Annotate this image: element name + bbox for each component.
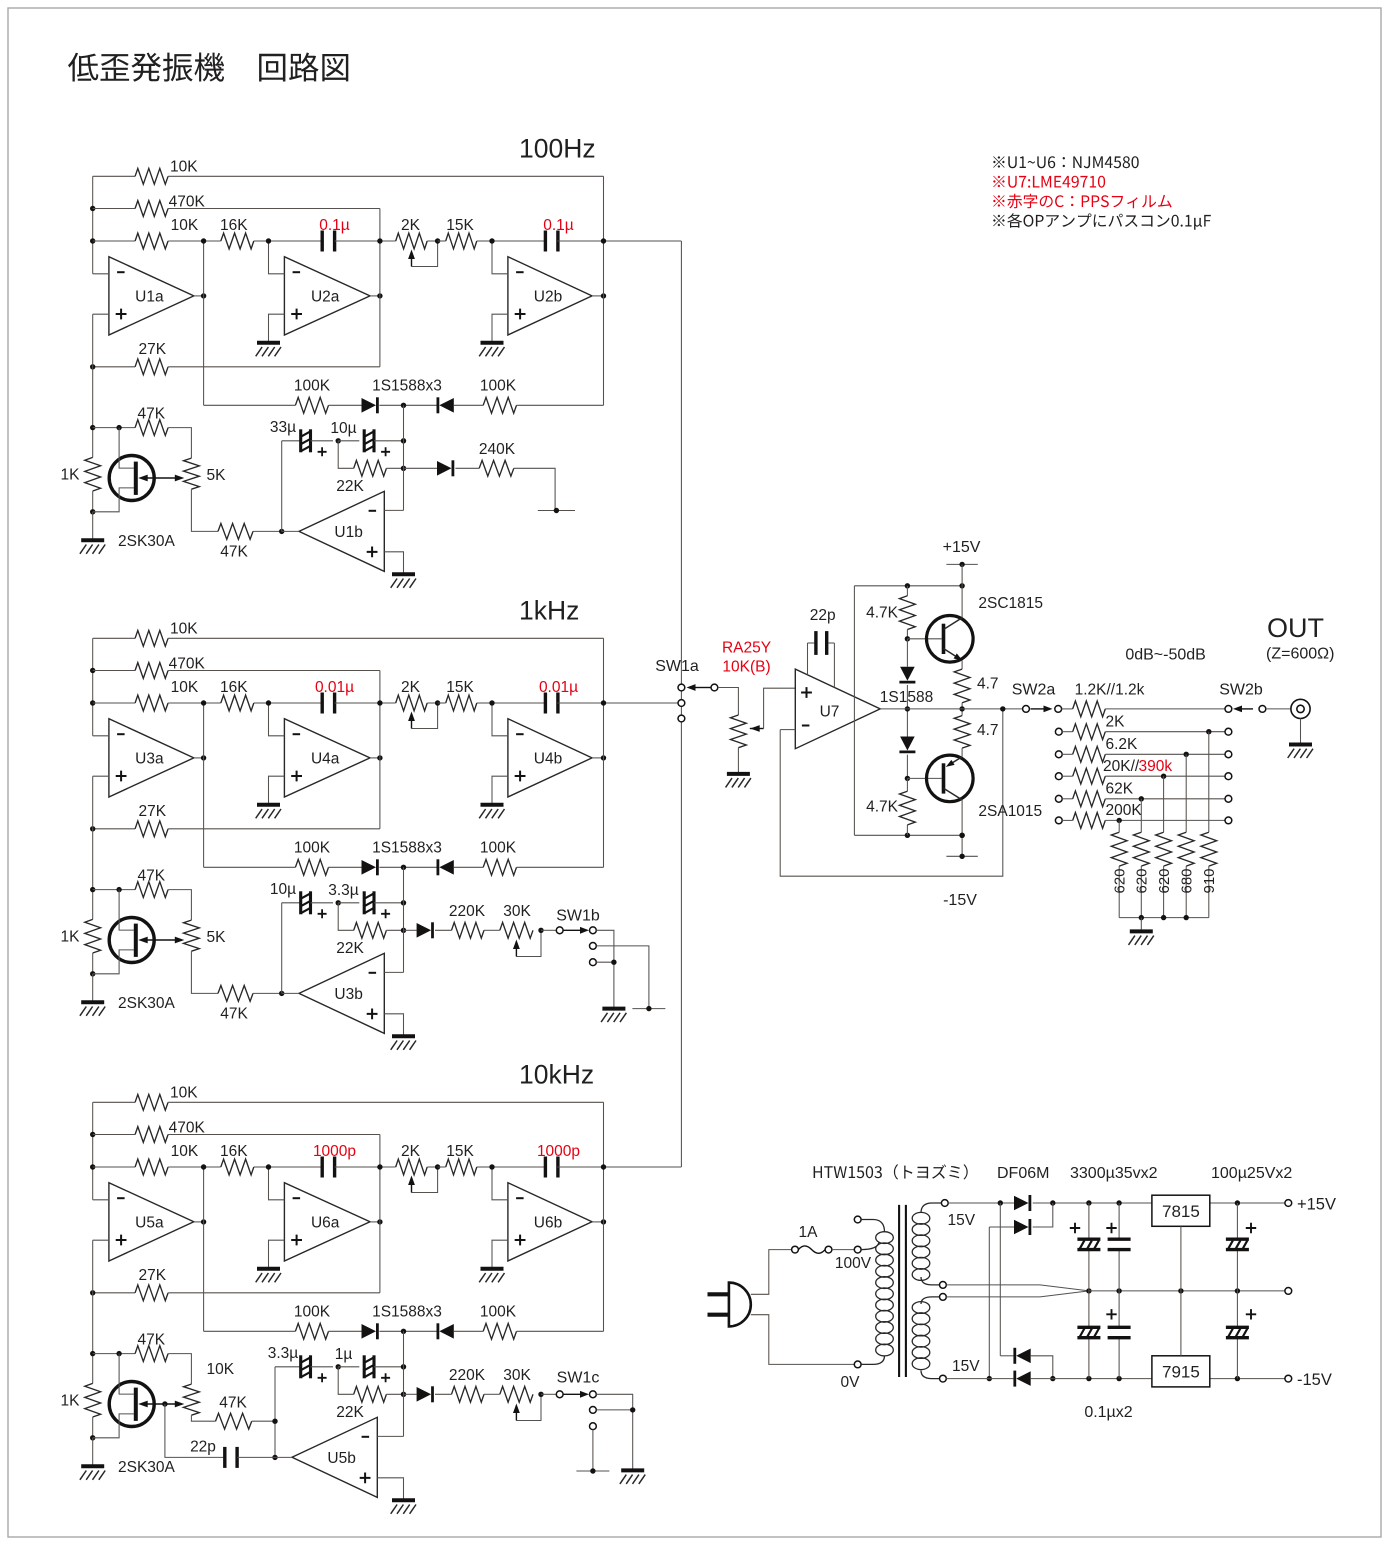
resistor 100K (limiter right, 100Hz) xyxy=(454,378,604,414)
capacitor 0.01µ (integrator 2, 1kHz) xyxy=(492,693,604,714)
svg-text:10µ: 10µ xyxy=(330,420,356,437)
wire JFET gate to pot wiper (100Hz) xyxy=(138,475,184,482)
polarity + 100µ upper xyxy=(1246,1223,1256,1233)
svg-text:47K: 47K xyxy=(220,544,248,561)
svg-text:100µ25Vx2: 100µ25Vx2 xyxy=(1211,1165,1292,1182)
capacitor 0.1µ (film pair) xyxy=(1108,1203,1131,1379)
svg-text:220K: 220K xyxy=(449,1367,486,1384)
capacitor 0.01µ (integrator 1, 1kHz) xyxy=(269,693,380,714)
value label 3.3µ xyxy=(328,882,359,899)
svg-text:U2b: U2b xyxy=(534,288,562,305)
capacitor 33µ (electrolytic, 100Hz) xyxy=(301,429,333,456)
svg-text:10K(B): 10K(B) xyxy=(722,659,770,676)
resistor 2K (-10dB series) xyxy=(1062,724,1225,740)
svg-text:47K: 47K xyxy=(220,1006,248,1023)
diode 1S1588 (rectifier, 100Hz) xyxy=(404,460,453,476)
svg-text:47K: 47K xyxy=(138,406,166,423)
wire U2b inverting input xyxy=(489,238,508,273)
polarity + 3300µ upper xyxy=(1070,1223,1080,1233)
wire bottom rail left xyxy=(946,1378,1013,1380)
power label -15V xyxy=(943,892,977,909)
op-amp U6b xyxy=(508,1183,592,1261)
svg-text:2K: 2K xyxy=(1106,714,1126,731)
svg-text:620: 620 xyxy=(1134,868,1151,893)
svg-text:2K: 2K xyxy=(401,1143,421,1160)
terminal +15V output xyxy=(1285,1200,1292,1207)
designator label 1S1588x3 (100Hz) xyxy=(372,378,442,395)
value label 620 xyxy=(1134,868,1151,893)
resistor 620 (shunt 1) xyxy=(1111,818,1127,918)
diode 1S1588 (bias lower) xyxy=(899,709,915,779)
svg-text:0dB~-50dB: 0dB~-50dB xyxy=(1125,647,1206,664)
note bypass caps xyxy=(993,213,1211,230)
svg-text:SW2a: SW2a xyxy=(1012,682,1056,699)
resistor 20K//390k (-30dB series) xyxy=(1062,768,1225,784)
value label 1A xyxy=(799,1224,819,1241)
resistor 1K (source, 1kHz) xyxy=(61,919,101,976)
svg-text:910: 910 xyxy=(1201,868,1218,893)
svg-text:620: 620 xyxy=(1156,868,1173,893)
switch SW1b label xyxy=(556,908,600,925)
node Q2 base xyxy=(905,706,942,781)
wire U3a inverting input xyxy=(93,735,109,737)
resistor 16K (1kHz) xyxy=(204,679,269,711)
capacitor 3300µ35v (electrolytic pair) xyxy=(1077,1203,1100,1379)
wire U6a inverting input xyxy=(266,1164,285,1200)
svg-text:620: 620 xyxy=(1111,868,1128,893)
wire limiter center node (100Hz) xyxy=(379,403,436,408)
svg-text:SW1b: SW1b xyxy=(556,908,600,925)
wire Q2 collector to -15V xyxy=(959,800,964,856)
svg-text:1S1588: 1S1588 xyxy=(880,689,933,706)
svg-text:+15V: +15V xyxy=(1297,1196,1336,1214)
ground at SW1b xyxy=(601,1009,626,1023)
diode 1S1588 (limiter D1, 1kHz) xyxy=(362,859,378,875)
wire SW1c throw1 to ground rail xyxy=(596,1394,632,1470)
svg-text:RA25Y: RA25Y xyxy=(722,640,771,657)
svg-text:100K: 100K xyxy=(294,840,331,857)
wire U4a output xyxy=(370,755,383,760)
switch SW1b pole contact xyxy=(556,927,563,934)
wire output row to bus (100Hz) xyxy=(604,240,682,242)
resistor 1.2K//1.2k (0dB) xyxy=(1062,701,1225,717)
transistor 2SA1015 (Q2) xyxy=(927,755,974,802)
wire U3a output xyxy=(194,755,207,760)
wire U4b inverting input xyxy=(489,700,508,736)
svg-text:DF06M: DF06M xyxy=(997,1165,1049,1182)
wire JFET gate to pot wiper (1kHz) xyxy=(138,937,184,944)
switch SW1b throw 1 xyxy=(590,927,597,934)
svg-text:100K: 100K xyxy=(294,378,331,395)
svg-text:15V: 15V xyxy=(952,1358,980,1375)
resistor 1K (source, 100Hz) xyxy=(61,457,101,514)
terminal -15V output xyxy=(1285,1375,1292,1382)
value label 10µ xyxy=(330,420,356,437)
resistor 620 (shunt 2) xyxy=(1133,796,1149,918)
svg-text:+15V: +15V xyxy=(943,539,981,556)
node 1kHz heading xyxy=(519,596,579,626)
value label 2K xyxy=(1106,714,1126,731)
label attenuation range xyxy=(1125,647,1206,664)
svg-text:22K: 22K xyxy=(336,478,364,495)
wire source rail to ground (100Hz) xyxy=(92,512,94,541)
capacitor 3.3µ (electrolytic, 1kHz) xyxy=(338,891,406,918)
svg-text:22p: 22p xyxy=(810,607,836,624)
switch SW2a throw contact xyxy=(1055,706,1062,713)
wire SW1a pole to level pot xyxy=(718,688,739,716)
wire U4b output xyxy=(592,755,606,760)
switch SW2a label xyxy=(1012,682,1056,699)
resistor 1K (source, 10kHz) xyxy=(61,1383,101,1440)
switch SW2a throw contact (-40dB) xyxy=(1055,795,1062,802)
wire U6b non-inverting input xyxy=(492,1240,508,1269)
value label 62K xyxy=(1106,781,1134,798)
wire U7 inverting input feedback xyxy=(780,709,1003,876)
resistor 100K (limiter left, 1kHz) xyxy=(204,840,362,876)
svg-text:U5a: U5a xyxy=(135,1214,164,1231)
ground at JFET source (10kHz) xyxy=(80,1466,105,1480)
capacitor 1000p (integrator 2, 10kHz) xyxy=(492,1157,604,1178)
diode 1S1588 (rectifier, 10kHz) xyxy=(404,1386,433,1402)
terminal secondary 15V lower xyxy=(940,1375,947,1382)
svg-text:1S1588x3: 1S1588x3 xyxy=(372,840,442,857)
node U1b input junction xyxy=(279,529,284,534)
ground at U4a non-inverting input xyxy=(256,805,281,819)
switch SW1c throw 3 xyxy=(590,1423,597,1430)
designator label 1S1588x3 (10kHz) xyxy=(372,1304,442,1321)
op-amp U2b xyxy=(508,257,592,335)
note U7 LME49710 xyxy=(993,176,1105,188)
resistor 15K (10kHz) xyxy=(438,1143,492,1175)
wire U1b inverting input xyxy=(384,509,403,511)
wire U1a output xyxy=(194,293,207,298)
ground at U6a non-inverting input xyxy=(256,1269,281,1283)
switch SW2b throw contact 4 xyxy=(1225,773,1232,780)
resistor 10K (top feedback, 1kHz) xyxy=(93,621,604,647)
svg-text:22K: 22K xyxy=(336,1404,364,1421)
switch SW2b throw contact 6 xyxy=(1225,817,1232,824)
svg-text:4.7K: 4.7K xyxy=(866,605,899,622)
capacitor 10µ (electrolytic, 1kHz) xyxy=(301,891,333,918)
potentiometer 5K (AGC, 100Hz) xyxy=(184,458,227,489)
wire U5b output xyxy=(275,1456,292,1458)
svg-text:U3a: U3a xyxy=(135,750,164,767)
wire 470K feedback vertical (100Hz) xyxy=(377,209,382,367)
svg-text:100K: 100K xyxy=(294,1304,331,1321)
switch SW1c wiper arrow xyxy=(564,1391,590,1398)
svg-text:2SK30A: 2SK30A xyxy=(118,995,176,1012)
capacitor 1µ (electrolytic, 10kHz) xyxy=(338,1355,406,1382)
value label 22p (10kHz) xyxy=(190,1439,216,1456)
svg-text:220K: 220K xyxy=(449,903,486,920)
diode 1S1588 (bias upper) xyxy=(899,639,915,709)
svg-text:7815: 7815 xyxy=(1162,1202,1200,1221)
op-amp U3b xyxy=(299,953,384,1033)
transistor 2SK30A (JFET, 100Hz) xyxy=(93,428,155,512)
wire 30K to switch SW1c pole xyxy=(541,1393,556,1395)
wire right feedback vertical (100Hz) xyxy=(601,176,606,405)
svg-text:U2a: U2a xyxy=(311,288,340,305)
svg-text:1K: 1K xyxy=(61,929,81,946)
diode DF06M D4 xyxy=(1015,1371,1031,1387)
svg-text:10K: 10K xyxy=(170,159,198,176)
resistor 100K (limiter right, 1kHz) xyxy=(454,840,604,876)
op-amp U3a xyxy=(109,719,194,797)
svg-text:U4b: U4b xyxy=(534,750,562,767)
svg-text:U4a: U4a xyxy=(311,750,340,767)
wire oscillator output bus xyxy=(680,241,682,1167)
value label 6.2K xyxy=(1106,736,1139,753)
op-amp U1a xyxy=(109,257,194,335)
svg-text:SW2b: SW2b xyxy=(1219,682,1263,699)
svg-text:(Z=600Ω): (Z=600Ω) xyxy=(1266,646,1334,663)
node 100Hz heading xyxy=(519,134,596,164)
wire U5b non-inverting input xyxy=(377,1478,403,1501)
wire SW1c throw2 to ground rail xyxy=(596,1407,635,1412)
svg-text:390k: 390k xyxy=(1139,758,1173,775)
ground at U2b non-inverting input xyxy=(479,343,504,357)
switch SW1c throw 2 xyxy=(590,1407,597,1414)
capacitor 0.1µ (integrator 2, 100Hz) xyxy=(492,231,604,252)
svg-text:3300µ35vx2: 3300µ35vx2 xyxy=(1070,1165,1158,1182)
svg-text:U1b: U1b xyxy=(334,524,362,541)
note red C PPS film xyxy=(993,194,1171,209)
wire node after 10K down to limiter row (1kHz) xyxy=(201,700,206,867)
resistor 4.7 (lower emitter) xyxy=(954,716,998,757)
resistor 910 (shunt 5) xyxy=(1201,729,1217,918)
wire U5b input vertical xyxy=(272,1367,300,1460)
svg-text:2SA1015: 2SA1015 xyxy=(978,803,1042,820)
resistor 22K (10kHz) xyxy=(336,1367,406,1421)
power label -15V output xyxy=(1297,1371,1332,1389)
resistor 4.7K (lower bias) xyxy=(866,778,915,835)
resistor 27K (100Hz) xyxy=(90,341,380,375)
svg-text:5K: 5K xyxy=(207,467,227,484)
value label 620 xyxy=(1111,868,1128,893)
wire U2a non-inverting input xyxy=(269,314,285,343)
node output junction xyxy=(959,706,964,711)
diode DF06M D2 xyxy=(989,1203,1053,1235)
capacitor 0.1µ (integrator 1, 100Hz) xyxy=(269,231,380,252)
node between electrolytics (1kHz) xyxy=(336,900,341,905)
wire plug to fuse xyxy=(751,1250,792,1295)
switch SW2a throw contact (-50dB) xyxy=(1055,817,1062,824)
wire 0V mid rail xyxy=(1089,1288,1285,1293)
label HTW1503 (toyozumi) xyxy=(814,1164,968,1179)
wire bottom rail right xyxy=(1210,1376,1285,1381)
ground at OUT jack xyxy=(1288,745,1313,759)
svg-text:4.7: 4.7 xyxy=(977,722,999,739)
svg-text:-15V: -15V xyxy=(1297,1371,1332,1389)
value label 1µ xyxy=(335,1346,353,1363)
potentiometer 2K (1kHz) xyxy=(380,679,440,729)
switch SW2b throw contact 5 xyxy=(1225,795,1232,802)
svg-text:22K: 22K xyxy=(336,940,364,957)
svg-text:6.2K: 6.2K xyxy=(1106,736,1139,753)
svg-text:3.3µ: 3.3µ xyxy=(328,882,359,899)
value label 3.3µ xyxy=(268,1345,299,1362)
svg-text:470K: 470K xyxy=(169,1120,206,1137)
label DF06M xyxy=(997,1165,1049,1182)
resistor 62K (-40dB series) xyxy=(1062,791,1225,807)
wire output row to bus (1kHz) xyxy=(604,702,682,704)
switch SW2a wiper arrow xyxy=(1031,706,1053,713)
resistor 470K (10kHz) xyxy=(93,1120,380,1143)
node between electrolytics (100Hz) xyxy=(336,438,341,443)
op-amp U7 xyxy=(795,669,880,749)
potentiometer RA25Y 10K(B) xyxy=(731,715,764,748)
op-amp U4a xyxy=(284,719,370,797)
ground at U6b non-inverting input xyxy=(479,1269,504,1283)
value label 22p xyxy=(810,607,836,624)
svg-text:4.7: 4.7 xyxy=(977,676,999,693)
resistor 10K (input row, 1kHz) xyxy=(93,679,204,711)
designator label 2SC1815 xyxy=(978,595,1043,612)
label 100u25Vx2 xyxy=(1211,1165,1292,1182)
switch SW1a wiper arrow xyxy=(687,684,711,691)
wire top rail left xyxy=(948,1200,1014,1205)
wire left rail lower (10kHz) xyxy=(90,1240,95,1383)
switch SW1a pole contact xyxy=(711,684,718,691)
svg-text:16K: 16K xyxy=(220,679,248,696)
svg-text:U6a: U6a xyxy=(311,1214,340,1231)
wire top rail middle xyxy=(1033,1200,1152,1205)
svg-text:1A: 1A xyxy=(799,1224,819,1241)
svg-text:U6b: U6b xyxy=(534,1214,562,1231)
svg-text:1.2K//1.2k: 1.2K//1.2k xyxy=(1075,682,1145,699)
svg-text:100K: 100K xyxy=(480,840,517,857)
svg-text:47K: 47K xyxy=(219,1395,247,1412)
wire left rail lower (100Hz) xyxy=(90,314,95,457)
ground at level pot xyxy=(726,774,751,788)
svg-text:1kHz: 1kHz xyxy=(519,596,579,626)
svg-text:16K: 16K xyxy=(220,1143,248,1160)
resistor 15K (1kHz) xyxy=(438,679,492,711)
designator label 2SK30A (100Hz) xyxy=(118,533,176,550)
wire 30K to switch SW1b pole xyxy=(541,929,556,931)
power stub -15V at SW1c xyxy=(576,1468,609,1473)
switch SW1b throw 3 xyxy=(590,959,597,966)
transistor 2SK30A (JFET, 1kHz) xyxy=(93,890,155,974)
potentiometer 2K (100Hz) xyxy=(380,217,440,267)
svg-text:100K: 100K xyxy=(480,378,517,395)
resistor 10K (top feedback, 10kHz) xyxy=(93,1085,604,1111)
power stub -15V (100Hz) xyxy=(538,508,575,513)
resistor 22K (1kHz) xyxy=(336,903,406,957)
switch SW1a throw 2 (1kHz) xyxy=(678,700,685,707)
wire SW1b throw3 to ground rail xyxy=(596,960,616,965)
diode DF06M D3 xyxy=(1000,1348,1055,1382)
svg-text:4.7K: 4.7K xyxy=(866,799,899,816)
wire U3b inverting input xyxy=(384,971,403,973)
svg-text:10K: 10K xyxy=(171,217,199,234)
value label 1.2K//1.2k xyxy=(1075,682,1145,699)
svg-text:-15V: -15V xyxy=(943,892,977,909)
wire U2a inverting input xyxy=(266,238,285,273)
svg-text:22p: 22p xyxy=(190,1439,216,1456)
resistor 6.2K (-20dB series) xyxy=(1062,746,1225,762)
wire rectifier node vertical (1kHz) xyxy=(403,867,405,972)
fuse 1A xyxy=(792,1246,832,1253)
svg-text:27K: 27K xyxy=(139,803,167,820)
svg-text:0.01µ: 0.01µ xyxy=(539,679,578,696)
wire SW1b throw2 to supply stub xyxy=(596,946,649,1009)
resistor 10K (input row, 100Hz) xyxy=(93,217,204,249)
svg-text:0.1µ: 0.1µ xyxy=(319,217,350,234)
ground at U3b non-inverting input xyxy=(391,1036,416,1050)
designator label 1S1588 xyxy=(880,689,933,706)
power label +15V xyxy=(943,539,981,556)
svg-text:U7: U7 xyxy=(820,704,840,721)
svg-text:10K: 10K xyxy=(170,621,198,638)
switch SW1c label xyxy=(557,1369,600,1386)
svg-text:33µ: 33µ xyxy=(270,419,296,436)
wire node after 10K down to limiter row (100Hz) xyxy=(201,238,206,405)
value label RA25Y 10K(B) xyxy=(722,640,771,676)
resistor 47K (to U5b input) xyxy=(191,1395,275,1429)
svg-text:27K: 27K xyxy=(139,341,167,358)
label Z=600 xyxy=(1266,646,1334,663)
transformer HTW1503 secondary winding lower xyxy=(912,1297,939,1379)
svg-text:30K: 30K xyxy=(503,903,531,920)
switch SW1b throw 2 xyxy=(590,943,597,950)
ground at U4b non-inverting input xyxy=(479,805,504,819)
wire SW1c throw3 to supply stub xyxy=(592,1430,594,1471)
regulator 7815 xyxy=(1152,1195,1210,1226)
wire shunt common bus xyxy=(1119,915,1209,920)
svg-text:1K: 1K xyxy=(61,1393,81,1410)
wire U5a non-inverting input xyxy=(93,1239,109,1241)
wire 7915 ground pin xyxy=(1180,1291,1182,1356)
wire center tap xyxy=(946,1285,1091,1297)
diode 1S1588 (limiter D1, 100Hz) xyxy=(362,397,378,413)
wire rectifier node vertical (100Hz) xyxy=(403,405,405,510)
wire U5b inverting input xyxy=(377,1435,403,1437)
svg-text:7915: 7915 xyxy=(1162,1363,1200,1382)
wire U2b output xyxy=(592,293,606,298)
designator label 2SK30A (1kHz) xyxy=(118,995,176,1012)
resistor 16K (10kHz) xyxy=(204,1143,269,1175)
wire U1a non-inverting input xyxy=(93,313,109,315)
value label 0.1µ (2) xyxy=(543,217,574,234)
wire right feedback vertical (10kHz) xyxy=(601,1102,606,1331)
svg-text:15K: 15K xyxy=(446,1143,474,1160)
terminal 100V tap xyxy=(854,1246,861,1253)
capacitor 10µ (electrolytic, 100Hz) xyxy=(338,429,406,456)
wire U4a inverting input xyxy=(266,700,285,736)
wire U6b output xyxy=(592,1219,606,1224)
node 10kHz heading xyxy=(519,1060,594,1090)
op-amp U4b xyxy=(508,719,592,797)
label OUT xyxy=(1267,613,1324,643)
wire U4a non-inverting input xyxy=(269,776,285,805)
value label 33µ xyxy=(270,419,296,436)
diode 1S1588 (limiter D2, 10kHz) xyxy=(438,1323,454,1339)
svg-text:240K: 240K xyxy=(479,441,516,458)
note U1-U6 NJM4580 xyxy=(993,156,1138,168)
value label 620 xyxy=(1156,868,1173,893)
resistor 47K (drain bias, 10kHz) xyxy=(93,1332,192,1385)
diode DF06M D1 xyxy=(1014,1195,1030,1211)
svg-text:2SC1815: 2SC1815 xyxy=(978,595,1043,612)
resistor 200K (-50dB series) xyxy=(1062,813,1225,829)
resistor 47K (drain bias, 1kHz) xyxy=(93,868,192,921)
ground at attenuator xyxy=(1129,931,1154,945)
value label 910 xyxy=(1201,868,1218,893)
resistor 220K (1kHz) xyxy=(435,903,486,938)
svg-text:0.01µ: 0.01µ xyxy=(315,679,354,696)
designator label 1S1588x3 (1kHz) xyxy=(372,840,442,857)
